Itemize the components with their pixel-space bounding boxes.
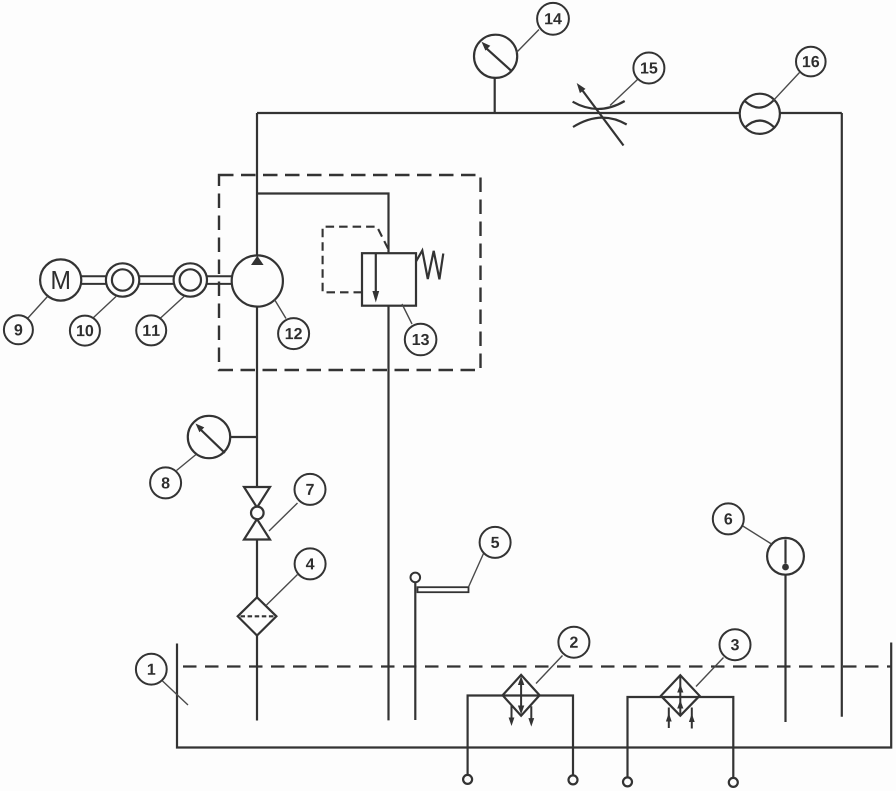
label circle 10 [70,316,100,346]
label circle 15 [633,53,664,84]
label circle 12 [278,318,309,349]
label text 8 [162,477,170,488]
relief valve 13 pilot dashed line [323,227,390,293]
label text 12 [286,328,302,339]
level indicator 5 [411,573,469,593]
label circle 14 [537,3,569,35]
flow indicator 16 [740,94,780,134]
label circle 11 [136,315,166,345]
leader 15 [610,80,638,106]
pressure gauge 8 [188,416,230,458]
wire top main pressure line [257,112,842,114]
wire pump suction line [256,306,258,721]
leader 6 [742,526,772,545]
label circle 6 [713,503,744,534]
label text 9 [15,324,23,335]
pressure gauge 14 [474,35,517,78]
label text 15 [641,62,657,73]
wire level indicator 5 rod [414,582,416,720]
wire thermometer 6 stem [784,575,786,723]
cooler 2 port circle right [569,775,578,784]
label text 3 [731,639,739,650]
label circle 4 [295,548,326,579]
heater 3 port circle left [623,777,632,786]
label circle 9 [4,315,33,344]
cooler 2 port circle left [463,775,472,784]
throttle valve 15 [573,83,627,146]
label circle 16 [796,47,826,77]
shut-off valve 7 [244,487,270,540]
shaft double lines [81,276,231,284]
wire relief valve outlet to tank [387,306,389,721]
label circle 2 [558,627,589,658]
label text 14 [545,13,562,24]
label circles [4,3,826,685]
motor letter M [52,271,68,289]
label text 10 [77,325,93,336]
wire right return drop [841,113,843,717]
leader 5 [469,554,484,588]
relief valve 13 spring [416,251,443,280]
heater 3 port circle right [729,778,738,787]
label text 2 [570,637,578,648]
wire cooler 2 piping [468,696,573,776]
label text 6 [724,513,732,524]
label circle 5 [480,527,511,558]
thermometer 6 [767,538,804,575]
leader 11 [160,297,184,319]
leader lines [28,30,800,706]
leader 8 [177,455,197,471]
label text 7 [306,484,314,495]
fluid level dashed line [183,665,891,667]
label text 13 [413,334,429,345]
leader 7 [269,503,298,531]
leader 14 [517,30,540,53]
label circle 3 [720,629,751,660]
dashed enclosure box (power unit) [219,175,481,370]
relief valve 13 [323,227,444,306]
leader 16 [773,73,799,101]
label numbers [15,13,820,674]
leader 10 [93,297,116,319]
label text 4 [306,558,315,569]
label text 11 [143,325,159,336]
label circle 1 [136,654,167,685]
wire gauge 8 stub [231,436,257,438]
label text 1 [148,664,155,675]
leader 4 [267,575,298,606]
leader 2 [536,656,563,684]
heater 3 [661,675,700,728]
label circle 8 [150,467,181,498]
label text 5 [491,537,499,548]
wire heater 3 piping [628,697,734,778]
tank 1 [177,643,891,748]
wire pump outlet riser [256,113,258,255]
leader 13 [402,304,412,324]
wire gauge 14 stem [494,77,496,113]
leader 12 [275,300,287,319]
label circle 13 [405,324,437,356]
cooler 2 [503,675,540,727]
coupling 11 [174,263,207,296]
leader 9 [28,297,48,319]
pump 12 [232,255,283,306]
label circle 7 [295,474,326,505]
coupling 10 [106,263,139,296]
filter 4 [238,597,277,635]
wire branch to relief valve [257,194,389,254]
leader 1 [162,681,188,706]
label text 16 [803,56,819,67]
leader 3 [696,658,724,687]
motor 9 [40,259,81,300]
